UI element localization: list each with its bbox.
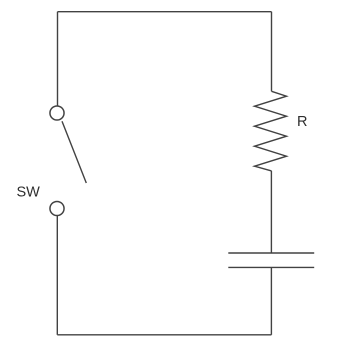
wire: right vertical from bottom-right corner up to capacitor bottom plate <box>270 267 272 334</box>
resistor R zigzag <box>255 91 287 171</box>
switch SW top contact circle <box>50 106 64 120</box>
capacitor C bottom plate <box>228 266 314 268</box>
switch SW bottom contact circle <box>50 201 64 215</box>
wire: left vertical from switch bottom contact down to bottom-left corner <box>56 216 58 335</box>
svg-text:R: R <box>297 114 307 130</box>
capacitor C top plate <box>228 252 314 254</box>
switch SW <box>50 106 86 216</box>
svg-text:SW: SW <box>17 185 41 201</box>
capacitor C <box>228 253 314 267</box>
wire: top horizontal <box>58 11 272 13</box>
switch SW lever (open blade) <box>62 121 86 183</box>
wire: right vertical from top-right corner down to resistor <box>271 12 273 92</box>
wire: left vertical from top-left corner down to switch top contact <box>57 12 59 106</box>
wire: right vertical from capacitor top plate up to resistor bottom <box>270 171 272 253</box>
wire: bottom horizontal <box>57 334 271 336</box>
